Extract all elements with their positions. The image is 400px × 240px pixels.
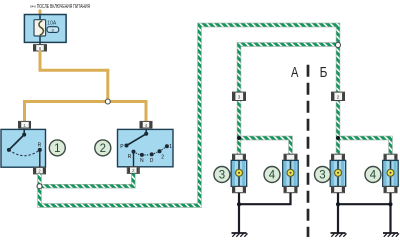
junction dot lamp group B [336,136,340,140]
wire black lamp grounds group A [239,193,291,233]
callout 4 group B [365,167,381,183]
wire green main from S1 around to lamps [40,25,339,206]
ground symbol B left [331,233,347,237]
wire black lamp grounds group B [338,193,391,233]
svg-text:2: 2 [100,143,106,155]
connector pin 1 on switch S1 top [19,121,32,128]
switch S2 contacts P R N D 2 1 [120,129,172,166]
ground symbol A [232,233,248,237]
lamp L4B reversing lamp right B [383,154,399,193]
svg-text:А: А [291,64,299,81]
ground symbol B right [383,233,399,237]
junction node green B [336,43,341,48]
switch S1 reversing light switch box [1,129,46,167]
connector pin 2 on wire B [332,92,345,100]
junction dot ground B left [336,202,340,206]
wire yellow from fuse to junction [40,51,108,102]
svg-text:3: 3 [238,95,241,100]
svg-text:2: 2 [337,95,340,100]
svg-text:«+» ПОСЛЕ ВКЛЮЧЕНИЯ ПИТАНИЯ: «+» ПОСЛЕ ВКЛЮЧЕНИЯ ПИТАНИЯ [30,4,90,10]
svg-text:3: 3 [219,170,225,182]
switch S2 transmission range switch box [118,129,174,166]
wire green node to S2 [40,174,134,187]
lamp L3B reversing lamp left B [330,154,346,193]
wire yellow stub above fuse box [39,10,42,16]
svg-text:3: 3 [319,170,325,182]
callout 2 [95,140,111,156]
svg-text:2: 2 [161,154,164,160]
svg-text:4: 4 [269,170,276,182]
fuse box F [24,15,66,43]
callout 3 group A [214,167,230,183]
wire green lamp stubs group A [239,138,291,155]
junction node green S1 [37,184,42,189]
svg-text:R: R [38,143,42,149]
junction node yellow [105,99,110,104]
callout 1 [49,140,65,156]
wire green branch to lamp group A [239,45,338,139]
svg-text:1: 1 [54,143,60,155]
lamp L3A reversing lamp left A [231,154,247,193]
callout 3 group B [315,167,331,183]
svg-text:Б: Б [320,64,328,81]
divider dashed line [307,65,310,237]
connector pin 4 on switch S2 top [140,121,152,128]
svg-text:N: N [140,158,144,164]
fuse number box [47,27,59,33]
connector pin 6 below fuse box [34,45,47,51]
wire conductor inside fuse box [39,15,41,44]
junction dot ground B right [389,202,393,206]
fuse element symbol [34,20,46,36]
callout 4 group A [264,167,280,183]
wire green lamp stubs group B [338,138,391,155]
svg-text:1: 1 [169,144,172,150]
svg-text:D: D [150,158,154,164]
svg-text:10A: 10A [47,21,57,27]
wire yellow bus to switches [25,102,147,122]
connector pin 2 on switch S1 bottom [34,167,46,174]
connector pin 3 on wire A [233,92,246,100]
junction dot lamp group A [237,136,241,140]
lamp L4A reversing lamp right A [283,154,299,193]
junction dot ground A [237,202,241,206]
switch S1 contacts [7,129,42,166]
svg-text:4: 4 [370,170,377,182]
connector pin 2 on switch S2 bottom [127,167,139,174]
svg-text:R: R [128,154,132,160]
